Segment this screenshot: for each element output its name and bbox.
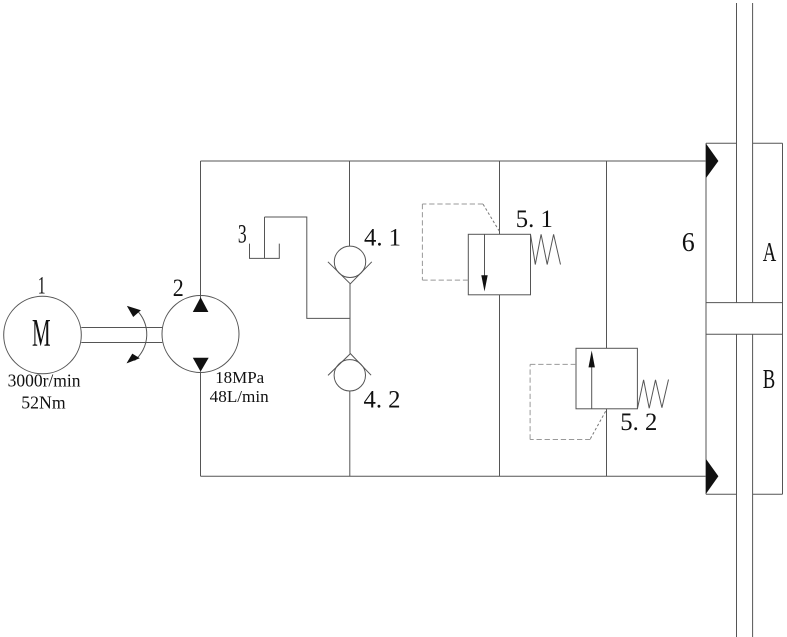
relief valve V5.1 pilot dashed diagonal xyxy=(483,204,500,231)
wire from tank to check-valve branch xyxy=(265,217,351,318)
cylinder rod lower xyxy=(737,334,753,637)
svg-text:5. 2: 5. 2 xyxy=(620,409,657,436)
wire: check valve 4.2 to bottom bus xyxy=(349,391,351,476)
pump P2 down-flow triangle xyxy=(193,358,209,372)
wire: pump line down to bottom bus xyxy=(200,372,202,477)
relief valve V5.1 body xyxy=(468,234,530,294)
svg-text:4. 1: 4. 1 xyxy=(364,224,401,251)
svg-text:A: A xyxy=(763,237,777,267)
relief valve V5.1 flow arrow line xyxy=(484,234,486,277)
relief valve V5.1 spring xyxy=(531,234,561,264)
tank T3 symbol xyxy=(250,244,280,259)
svg-text:5. 1: 5. 1 xyxy=(516,206,553,233)
cylinder piston xyxy=(706,303,783,335)
pump P2 up-flow triangle xyxy=(193,297,209,312)
rotation arrow head bottom xyxy=(127,354,140,364)
cylinder C6 body xyxy=(706,143,783,494)
svg-text:3000r/min: 3000r/min xyxy=(8,370,81,390)
relief valve V5.2 pilot dashed line xyxy=(530,364,590,439)
svg-text:52Nm: 52Nm xyxy=(21,393,65,413)
svg-text:18MPa: 18MPa xyxy=(215,368,264,387)
check valve V4.2 seat xyxy=(328,354,371,376)
svg-text:6: 6 xyxy=(682,227,695,257)
check valve V4.1 circle xyxy=(334,246,365,277)
svg-text:M: M xyxy=(32,312,51,355)
svg-text:2: 2 xyxy=(173,275,184,302)
relief valve V5.2 arrow head xyxy=(589,351,595,368)
motor U1 circle xyxy=(4,296,82,374)
bottom bus wire xyxy=(201,475,707,477)
tank pipe xyxy=(264,217,266,258)
wire: valve 5.2 to bottom bus xyxy=(606,409,608,477)
cylinder port B arrow xyxy=(706,459,718,494)
svg-text:48L/min: 48L/min xyxy=(210,387,269,406)
relief valve V5.2 flow arrow line xyxy=(591,366,593,409)
pump P2 circle xyxy=(162,296,239,373)
shaft wire between motor and pump xyxy=(81,328,162,343)
wire: branch from top bus to valve 5.2 xyxy=(606,161,608,348)
relief valve V5.2 body xyxy=(576,348,637,409)
wire: branch from top bus to valve 5.1 xyxy=(499,161,501,234)
wire: pump line up to top bus xyxy=(200,161,202,298)
relief valve V5.1 pilot dashed line xyxy=(422,204,483,280)
svg-text:B: B xyxy=(763,364,776,394)
check valve V4.2 circle xyxy=(334,360,365,391)
top bus wire xyxy=(201,160,707,162)
rotation direction arrow arc xyxy=(135,310,147,361)
cylinder rod upper xyxy=(737,3,753,303)
cylinder port A arrow xyxy=(706,144,718,178)
relief valve V5.2 pilot dashed diagonal xyxy=(590,410,606,438)
relief valve V5.2 spring xyxy=(637,380,668,409)
wire: valve 5.1 to bottom bus xyxy=(499,295,501,477)
svg-text:4. 2: 4. 2 xyxy=(364,387,401,414)
wire between check valves xyxy=(349,284,351,354)
svg-text:3: 3 xyxy=(238,219,247,248)
relief valve V5.1 arrow head xyxy=(481,275,487,291)
wire: branch from top bus to check valve 4.1 xyxy=(349,161,351,246)
rotation arrow head top xyxy=(127,306,141,317)
svg-text:1: 1 xyxy=(38,273,46,300)
check valve V4.1 seat xyxy=(328,262,372,284)
